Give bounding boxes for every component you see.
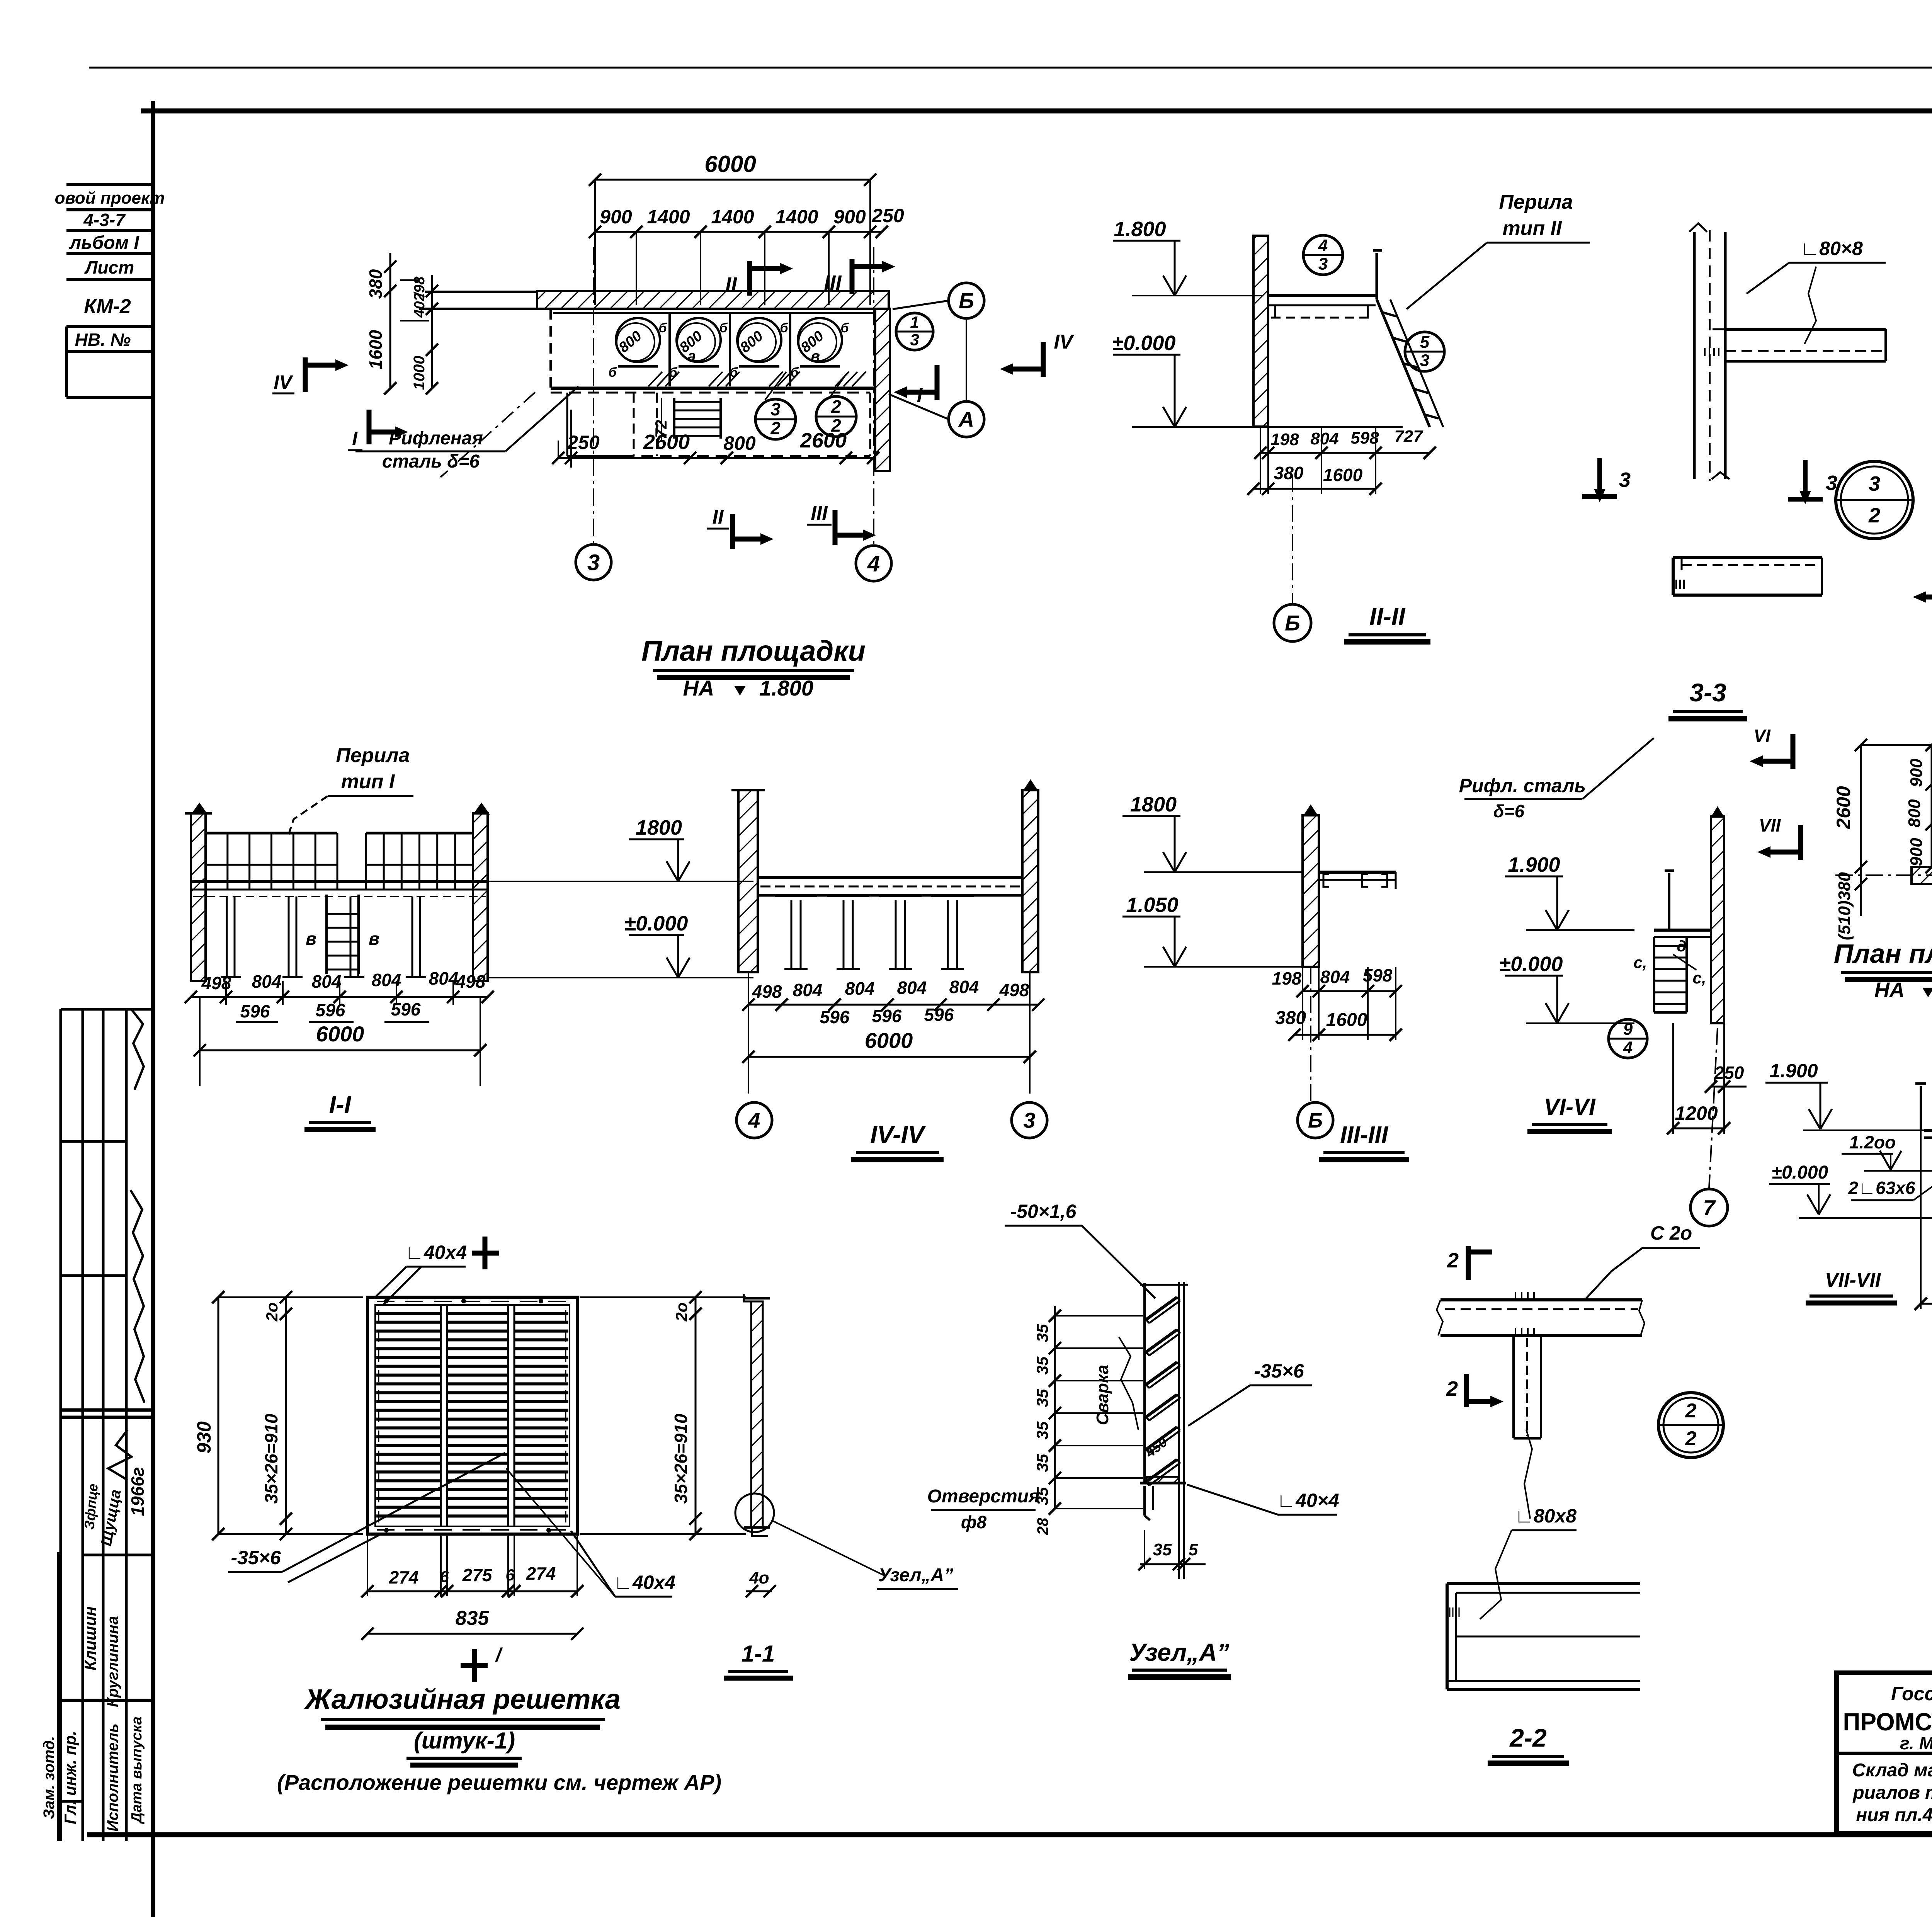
grid axis 3 — [593, 247, 594, 544]
svg-text:2∟63х6: 2∟63х6 — [1848, 1178, 1915, 1198]
svg-text:3-3: 3-3 — [1689, 678, 1726, 707]
svg-text:900: 900 — [1907, 759, 1926, 787]
svg-text:1200: 1200 — [1675, 1102, 1718, 1124]
svg-text:274: 274 — [526, 1563, 556, 1584]
svg-text:(Расположение решетки см. че: (Расположение решетки см. чертеж АР) — [277, 1770, 721, 1795]
svg-text:2: 2 — [1446, 1377, 1458, 1400]
grid axis 4 — [873, 247, 874, 546]
left column — [738, 790, 758, 972]
svg-text:II: II — [713, 506, 724, 528]
svg-text:∟80х8: ∟80х8 — [1515, 1505, 1577, 1527]
section marks 2 — [1466, 1246, 1471, 1280]
section mark V under table — [1926, 595, 1932, 600]
section mark III top — [850, 259, 855, 294]
svg-text:274: 274 — [389, 1567, 419, 1587]
svg-text:Узел„А”: Узел„А” — [1129, 1638, 1229, 1666]
svg-text:δ=6: δ=6 — [1493, 801, 1525, 821]
svg-text:1-1: 1-1 — [742, 1641, 775, 1667]
svg-text:-35×6: -35×6 — [231, 1547, 281, 1568]
svg-text:IV-IV: IV-IV — [870, 1121, 926, 1148]
circle 9/4 — [1609, 1019, 1647, 1058]
main frame left vertical — [151, 101, 155, 1917]
svg-text:сталь δ=6: сталь δ=6 — [382, 451, 480, 472]
svg-text:б: б — [608, 365, 617, 380]
svg-text:2: 2 — [770, 418, 781, 438]
svg-text:Сварка: Сварка — [1093, 1365, 1112, 1425]
platform VII — [1924, 1129, 1932, 1132]
svg-text:727: 727 — [1394, 427, 1423, 446]
svg-text:Рифл. сталь: Рифл. сталь — [1459, 775, 1586, 796]
svg-text:2: 2 — [1685, 1427, 1697, 1450]
ladder — [1376, 253, 1378, 299]
svg-text:а: а — [687, 348, 696, 365]
svg-text:4: 4 — [1318, 236, 1328, 255]
svg-text:в: в — [369, 929, 379, 949]
frame verticals — [1143, 1283, 1146, 1483]
svg-text:г. Москва-1966г: г. Москва-1966г — [1900, 1733, 1932, 1753]
grille frame — [367, 1297, 577, 1534]
tank circles d800 — [616, 318, 660, 362]
railing panels — [206, 832, 337, 835]
channel 2-2 — [1447, 1582, 1640, 1585]
svg-text:в: в — [306, 929, 316, 949]
section mark 1 top — [483, 1237, 488, 1269]
dashed edges — [378, 1310, 379, 1522]
svg-text:9: 9 — [1623, 1020, 1633, 1039]
platform beams — [1268, 294, 1376, 297]
svg-text:804: 804 — [252, 971, 282, 992]
hatch patches between tanks — [648, 372, 662, 386]
svg-text:1.2оо: 1.2оо — [1849, 1132, 1896, 1152]
svg-text:∟40х4: ∟40х4 — [405, 1242, 467, 1263]
svg-text:7: 7 — [1703, 1196, 1716, 1220]
svg-text:тип II: тип II — [1502, 217, 1562, 240]
svg-text:2: 2 — [831, 396, 841, 417]
svg-text:4: 4 — [1623, 1038, 1633, 1057]
svg-text:±0.000: ±0.000 — [1772, 1162, 1828, 1183]
svg-text:1000: 1000 — [411, 356, 428, 390]
svg-text:250: 250 — [1714, 1063, 1744, 1083]
svg-text:3: 3 — [910, 331, 919, 349]
beam lines — [1725, 328, 1886, 331]
main frame top line — [141, 109, 1932, 114]
detail circle 4/3 — [1303, 235, 1343, 275]
svg-text:35: 35 — [1033, 1324, 1051, 1342]
svg-text:План площадки: План площадки — [1834, 939, 1932, 969]
bubbles 4 and 3 — [736, 1102, 772, 1138]
platform to right — [1319, 871, 1396, 874]
svg-text:2600: 2600 — [800, 429, 847, 452]
vertical dividers — [440, 1305, 442, 1526]
svg-text:А: А — [958, 407, 974, 432]
svg-text:198: 198 — [1272, 968, 1302, 988]
svg-text:риалов тарного хране-: риалов тарного хране- — [1852, 1783, 1932, 1803]
svg-text:900: 900 — [1907, 838, 1926, 866]
svg-text:900: 900 — [833, 206, 866, 228]
svg-text:/98: /98 — [412, 276, 428, 298]
svg-text:Перила: Перила — [336, 744, 410, 767]
title block — [1837, 1673, 1932, 1833]
svg-text:НА: НА — [1874, 978, 1905, 1002]
svg-text:1.800: 1.800 — [1114, 218, 1166, 241]
section mark 1 bottom — [472, 1649, 477, 1682]
corner bolts — [384, 1299, 389, 1303]
bubble B — [1310, 967, 1311, 1102]
svg-text:2: 2 — [1868, 504, 1880, 527]
svg-text:(штук-1): (штук-1) — [414, 1728, 515, 1754]
svg-text:Перила: Перила — [1499, 191, 1573, 213]
svg-text:2о: 2о — [263, 1302, 281, 1322]
svg-text:28: 28 — [1034, 1517, 1051, 1535]
middle ladder — [325, 895, 328, 974]
section marks 3-3 — [1597, 458, 1602, 489]
svg-text:596: 596 — [820, 1007, 850, 1027]
svg-text:±0.000: ±0.000 — [1499, 953, 1563, 976]
svg-text:6000: 6000 — [865, 1028, 913, 1053]
section mark IV right — [1041, 342, 1046, 377]
platform deck — [191, 880, 488, 883]
left dim chain — [1054, 1306, 1056, 1509]
svg-text:35: 35 — [1153, 1540, 1172, 1559]
svg-text:НВ. №: НВ. № — [75, 330, 131, 350]
svg-text:VI: VI — [1753, 726, 1771, 746]
svg-text:II-II: II-II — [1369, 603, 1406, 631]
svg-text:КМ-2: КМ-2 — [84, 295, 131, 318]
svg-text:4: 4 — [867, 551, 880, 576]
svg-text:1.050: 1.050 — [1126, 893, 1178, 917]
svg-text:1: 1 — [910, 313, 919, 331]
right column hatched — [473, 813, 488, 981]
svg-text:35: 35 — [1033, 1389, 1051, 1407]
svg-text:б: б — [780, 321, 788, 335]
svg-text:3: 3 — [1318, 254, 1328, 273]
svg-text:250: 250 — [871, 205, 904, 226]
svg-text:с,: с, — [1633, 953, 1647, 971]
svg-text:2о: 2о — [672, 1302, 690, 1322]
svg-text:5: 5 — [1420, 333, 1430, 352]
svg-text:Дата выпуска: Дата выпуска — [129, 1716, 145, 1824]
double circle 2/2 — [1658, 1393, 1723, 1458]
svg-text:3: 3 — [1420, 351, 1429, 370]
1-1 strip — [751, 1301, 763, 1527]
svg-text:4-3-7: 4-3-7 — [83, 210, 126, 230]
svg-text:804: 804 — [1310, 429, 1338, 448]
section mark I left — [367, 410, 372, 444]
svg-text:Б: Б — [959, 289, 974, 313]
svg-text:Лист: Лист — [84, 257, 134, 277]
svg-text:VI-VI: VI-VI — [1544, 1094, 1596, 1120]
svg-text:с,: с, — [1692, 969, 1706, 987]
svg-text:-50×1,6: -50×1,6 — [1010, 1201, 1077, 1222]
svg-text:1.900: 1.900 — [1769, 1060, 1818, 1082]
signature squiggles — [131, 1009, 144, 1090]
svg-text:С 2о: С 2о — [1650, 1222, 1692, 1244]
svg-text:в: в — [811, 348, 820, 365]
svg-text:804: 804 — [949, 977, 979, 997]
svg-text:804: 804 — [897, 978, 927, 998]
svg-text:380: 380 — [366, 269, 386, 299]
svg-text:6000: 6000 — [316, 1022, 364, 1046]
svg-text:3: 3 — [1023, 1108, 1035, 1133]
svg-text:35×26=910: 35×26=910 — [261, 1414, 281, 1504]
svg-text:35: 35 — [1033, 1454, 1051, 1472]
svg-text:III: III — [824, 271, 842, 294]
section mark I right — [935, 365, 940, 400]
svg-text:275: 275 — [462, 1565, 493, 1585]
svg-text:198: 198 — [1270, 430, 1299, 449]
svg-text:1600: 1600 — [1326, 1010, 1367, 1030]
svg-text:498: 498 — [456, 971, 486, 992]
svg-text:596: 596 — [872, 1006, 902, 1026]
main frame bottom line — [87, 1832, 1932, 1837]
svg-text:ния пл.432м² без рампы: ния пл.432м² без рампы — [1856, 1805, 1932, 1825]
svg-text:6000: 6000 — [704, 151, 756, 177]
svg-text:596: 596 — [924, 1005, 954, 1025]
svg-text:930: 930 — [193, 1421, 215, 1454]
svg-text:804: 804 — [845, 978, 875, 998]
slats — [1146, 1297, 1177, 1320]
svg-text:1800: 1800 — [1130, 793, 1177, 816]
bottom angle L40 — [1140, 1482, 1186, 1485]
svg-text:∟40×4: ∟40×4 — [1277, 1490, 1339, 1511]
beams — [758, 876, 1022, 879]
section mark II top — [747, 261, 752, 296]
svg-text:4: 4 — [748, 1108, 760, 1133]
svg-text:1966г: 1966г — [128, 1467, 148, 1516]
svg-text:596: 596 — [240, 1001, 270, 1021]
svg-text:Склад масел и химматв-: Склад масел и химматв- — [1852, 1760, 1932, 1781]
detail circle 1/3 — [896, 313, 933, 350]
svg-text:I-I: I-I — [329, 1090, 352, 1118]
svg-text:Б: Б — [1308, 1109, 1323, 1132]
svg-text:б: б — [719, 321, 728, 335]
channel beam plan detail — [1673, 556, 1822, 559]
svg-text:±0.000: ±0.000 — [624, 912, 688, 935]
svg-text:тип I: тип I — [341, 771, 395, 793]
svg-text:5: 5 — [1189, 1540, 1198, 1559]
left margin vertical stamp table — [60, 1009, 62, 1841]
svg-text:VII: VII — [1759, 815, 1781, 835]
section mark II bottom — [730, 514, 735, 549]
section mark III bottom — [833, 510, 838, 545]
svg-text:II: II — [725, 273, 737, 296]
right dims — [695, 1297, 697, 1534]
svg-text:∟40х4: ∟40х4 — [614, 1572, 675, 1593]
svg-text:35×26=910: 35×26=910 — [671, 1414, 691, 1504]
svg-text:800: 800 — [723, 432, 756, 454]
svg-text:1400: 1400 — [647, 206, 690, 228]
svg-text:835: 835 — [456, 1607, 490, 1630]
svg-text:3: 3 — [1869, 472, 1880, 495]
detail circle 5/3 — [1405, 332, 1444, 371]
left dims — [218, 1297, 219, 1534]
svg-text:498: 498 — [201, 973, 231, 993]
svg-text:1800: 1800 — [636, 816, 682, 839]
svg-text:д: д — [1677, 938, 1687, 955]
svg-text:2-2: 2-2 — [1509, 1723, 1547, 1752]
wall bottom hatched — [1912, 867, 1932, 884]
louver slats lines — [376, 1312, 441, 1315]
right column — [1022, 790, 1038, 972]
svg-text:ф8: ф8 — [961, 1512, 987, 1532]
svg-text:Клишин: Клишин — [81, 1606, 99, 1670]
top wall band (hatched) — [537, 291, 889, 309]
axis bubble А — [949, 401, 984, 437]
svg-text:1400: 1400 — [775, 206, 818, 228]
svg-text:498: 498 — [999, 980, 1029, 1000]
svg-text:-35×6: -35×6 — [1254, 1360, 1304, 1382]
svg-text:Гл. инж. пр.: Гл. инж. пр. — [61, 1731, 79, 1824]
svg-text:Отверстия: Отверстия — [927, 1486, 1040, 1507]
platform support posts — [226, 896, 228, 976]
svg-text:800: 800 — [1905, 799, 1924, 828]
svg-text:б: б — [658, 321, 667, 335]
svg-text:льбом I: льбом I — [69, 233, 139, 253]
svg-text:380: 380 — [1275, 1008, 1306, 1028]
svg-text:Узел„А”: Узел„А” — [878, 1565, 953, 1585]
svg-text:Б: Б — [1285, 611, 1300, 635]
svg-text:Жалюзийная решетка: Жалюзийная решетка — [304, 1684, 621, 1715]
wall hatched — [1711, 816, 1724, 1023]
axis line A — [1835, 874, 1932, 876]
top-left stamp table — [66, 183, 153, 186]
svg-text:2: 2 — [1447, 1249, 1459, 1272]
svg-text:596: 596 — [316, 1000, 345, 1020]
svg-text:1.900: 1.900 — [1508, 853, 1560, 876]
double circle 3/2 — [1836, 461, 1913, 539]
outer thin top border line — [89, 67, 1932, 69]
platform + stair — [1654, 929, 1711, 932]
svg-text:ПРОМСТРОЙПРОЕКТ: ПРОМСТРОЙПРОЕКТ — [1843, 1708, 1932, 1736]
svg-text:1.800: 1.800 — [759, 676, 813, 700]
svg-text:б: б — [840, 321, 849, 335]
axis bubble Б — [949, 283, 984, 318]
svg-text:2: 2 — [1685, 1400, 1697, 1422]
platform plan outline — [549, 309, 552, 388]
svg-text:IV: IV — [1054, 331, 1074, 353]
svg-text:овой проект: овой проект — [55, 189, 165, 208]
svg-text:I: I — [352, 428, 358, 449]
small ladder in plan — [673, 398, 675, 439]
wall column (hatched) — [1253, 236, 1268, 427]
svg-text:IV: IV — [274, 371, 293, 393]
svg-text:804: 804 — [1320, 967, 1350, 987]
svg-text:35: 35 — [1033, 1421, 1051, 1439]
lower platform dashed outline — [551, 392, 870, 394]
svg-text:804: 804 — [793, 980, 823, 1000]
svg-text:498: 498 — [752, 981, 782, 1002]
svg-text:900: 900 — [600, 206, 632, 228]
svg-text:Госстрой СССР: Госстрой СССР — [1891, 1683, 1932, 1704]
svg-text:III-III: III-III — [1340, 1122, 1389, 1148]
svg-text:3: 3 — [587, 550, 600, 575]
svg-text:1600: 1600 — [366, 330, 386, 369]
node circle — [735, 1493, 774, 1532]
svg-text:3: 3 — [770, 399, 781, 419]
post below — [1512, 1335, 1515, 1438]
wall — [1303, 815, 1319, 967]
svg-text:(510)380: (510)380 — [1835, 872, 1854, 940]
beam band — [1440, 1298, 1642, 1301]
svg-text:VII-VII: VII-VII — [1825, 1269, 1881, 1291]
svg-text:Исполнитель: Исполнитель — [104, 1723, 121, 1832]
left column hatched — [191, 813, 206, 981]
svg-text:1600: 1600 — [1323, 465, 1363, 485]
svg-text:3: 3 — [1619, 468, 1631, 492]
svg-text:±0.000: ±0.000 — [1112, 332, 1176, 355]
svg-text:НА: НА — [683, 676, 714, 700]
svg-text:∟80×8: ∟80×8 — [1800, 238, 1863, 259]
svg-text:I: I — [917, 384, 923, 407]
bubble 7 — [1709, 1028, 1718, 1188]
svg-text:Круглинина: Круглинина — [104, 1616, 121, 1707]
detail with column and beam L80x8 — [1693, 232, 1696, 479]
left vertical dims of plan — [389, 253, 391, 388]
svg-text:Рифленая: Рифленая — [389, 428, 483, 449]
svg-text:2600: 2600 — [643, 430, 690, 454]
svg-text:План площадки: План площадки — [641, 635, 866, 667]
svg-text:1400: 1400 — [711, 206, 754, 228]
svg-text:804: 804 — [312, 971, 342, 992]
axis bubble Б under II-II — [1292, 475, 1293, 604]
section marks VI/VII left — [1791, 734, 1796, 769]
dim chains left of plan — [1860, 745, 1862, 916]
svg-text:6: 6 — [505, 1566, 515, 1584]
svg-text:35: 35 — [1033, 1356, 1051, 1374]
svg-text:380: 380 — [1274, 463, 1304, 483]
svg-text:596: 596 — [391, 999, 421, 1019]
svg-text:4о: 4о — [749, 1568, 769, 1587]
svg-text:III: III — [811, 502, 828, 524]
hanging posts — [775, 894, 817, 897]
svg-text:2600: 2600 — [1833, 786, 1854, 829]
section mark IV left — [303, 357, 308, 392]
svg-text:Зам. зотд.: Зам. зотд. — [41, 1736, 58, 1819]
